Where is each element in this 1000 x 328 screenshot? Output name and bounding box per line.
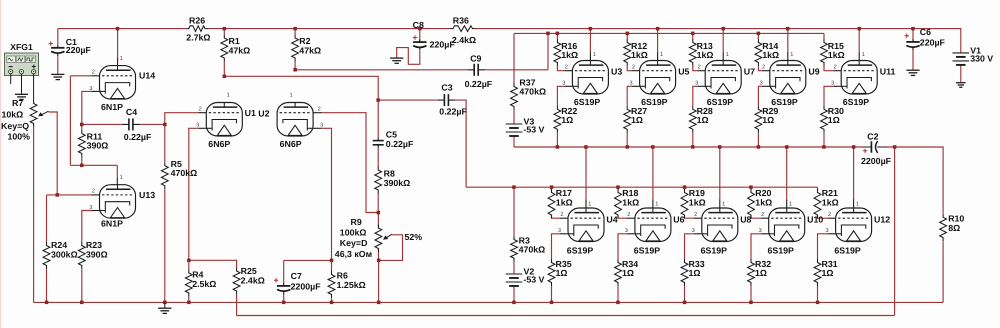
resistor R24 (43, 240, 78, 269)
capacitor C3 (437, 82, 467, 116)
svg-text:0.22µF: 0.22µF (465, 79, 493, 89)
svg-text:3: 3 (760, 81, 763, 87)
resistor R11 (78, 130, 108, 157)
svg-text:3: 3 (759, 228, 762, 234)
svg-text:1: 1 (120, 175, 123, 181)
svg-text:U14: U14 (139, 71, 155, 81)
resistor R15 (821, 39, 845, 66)
triode U2 (6N6P) (258, 93, 323, 150)
svg-text:C3: C3 (441, 82, 452, 92)
svg-text:R36: R36 (453, 15, 469, 25)
svg-text:8Ω: 8Ω (948, 223, 960, 233)
wire B+ rail right segment (R36 to V1) (476, 29, 961, 53)
svg-text:6N6P: 6N6P (280, 139, 302, 149)
triode U11 (6S19P) (831, 52, 895, 107)
wire cathode resistor bottom lead 3 (750, 286, 752, 302)
svg-text:C6: C6 (920, 27, 931, 37)
svg-text:6S19P: 6S19P (771, 97, 798, 107)
resistor R30 (821, 106, 844, 133)
triode U6 (6S19P) (625, 202, 685, 256)
wire R7 top lead from XFG1 (33, 82, 35, 100)
svg-text:2: 2 (828, 212, 831, 218)
wire R11 bottom lead (81, 157, 83, 165)
wire R1 bottom to U1 plate node (223, 62, 225, 77)
wire U14 plate drop (117, 29, 119, 58)
wire output bus right of C2 to R10 (886, 147, 943, 214)
svg-text:XFG1: XFG1 (10, 42, 33, 52)
wire grid resistor bottom to grid 3 (758, 66, 761, 71)
wire bottom grid bus (466, 186, 817, 188)
wire R11 top lead (81, 124, 83, 130)
wire plate drop U10 (786, 147, 788, 200)
svg-text:470kΩ: 470kΩ (171, 168, 198, 178)
svg-text:3: 3 (562, 81, 565, 87)
svg-text:1kΩ: 1kΩ (689, 198, 706, 208)
resistor R10 (940, 214, 965, 242)
wire U4 cathode to cathode resistor (560, 233, 568, 235)
svg-text:6S19P: 6S19P (641, 97, 668, 107)
wire plate drop U5 (657, 29, 659, 52)
ground on main bus (158, 308, 171, 313)
resistor R28 (689, 106, 712, 133)
wire C9 riser to top grid bus (547, 33, 549, 69)
svg-text:Key=D: Key=D (340, 238, 368, 248)
svg-text:U1: U1 (245, 108, 256, 118)
svg-text:U12: U12 (874, 215, 890, 225)
svg-text:2: 2 (318, 107, 321, 113)
resistor R5 (161, 159, 197, 189)
resistor R21 (814, 188, 839, 218)
svg-text:1: 1 (856, 202, 859, 208)
svg-text:3: 3 (825, 228, 828, 234)
capacitor C5 (373, 129, 414, 149)
wire R30 bottom lead (823, 133, 825, 147)
svg-text:2.4kΩ: 2.4kΩ (452, 35, 476, 45)
resistor R22 (554, 106, 577, 133)
svg-text:C5: C5 (386, 129, 397, 139)
junction dots on top grid bus (546, 32, 760, 35)
wire U9 cathode to R29 (762, 85, 770, 87)
triode U8 (6S19P) (692, 202, 752, 256)
svg-text:10kΩ: 10kΩ (2, 110, 24, 120)
svg-text:1: 1 (120, 56, 123, 62)
svg-text:U2: U2 (258, 108, 269, 118)
svg-text:1Ω: 1Ω (762, 115, 774, 125)
triode U5 (6S19P) (629, 52, 689, 107)
wire R9 wiper loop (379, 235, 403, 261)
junction dot U1 plate node (223, 75, 227, 79)
svg-text:1Ω: 1Ω (556, 268, 568, 278)
wire plate drop U11 (858, 29, 860, 52)
wire C1 bottom lead to ground (57, 56, 59, 74)
wire bottom grid resistor leads 3 (750, 187, 752, 190)
triode U13 (6N1P) (89, 175, 155, 228)
capacitor C1 (49, 37, 92, 56)
svg-text:1Ω: 1Ω (689, 268, 701, 278)
svg-text:-53 V: -53 V (523, 125, 544, 135)
potentiometer R9 (335, 217, 422, 259)
svg-text:R9: R9 (351, 217, 362, 227)
svg-text:0.22µF: 0.22µF (439, 107, 467, 117)
svg-text:U4: U4 (606, 215, 617, 225)
svg-text:100%: 100% (8, 132, 31, 142)
battery V1 (953, 45, 994, 65)
wire V2 to ground bus (513, 286, 515, 302)
wire ground symbol stem (164, 302, 166, 308)
svg-text:6S19P: 6S19P (834, 245, 861, 255)
resistor R27 (624, 106, 647, 133)
svg-text:2200µF: 2200µF (861, 156, 892, 166)
potentiometer R7 (1, 98, 49, 142)
svg-text:2: 2 (92, 189, 95, 195)
capacitor C4 (122, 107, 152, 142)
svg-text:46,3 кОм: 46,3 кОм (335, 249, 372, 259)
wire U13 plate node (70, 164, 117, 166)
resistor R16 (554, 39, 578, 66)
svg-text:U6: U6 (673, 215, 684, 225)
svg-text:1kΩ: 1kΩ (828, 50, 845, 60)
svg-text:470kΩ: 470kΩ (519, 245, 546, 255)
svg-text:390Ω: 390Ω (86, 249, 108, 259)
wire U2 grid to R9 node (321, 113, 378, 213)
svg-text:C2: C2 (867, 132, 878, 142)
svg-text:C8: C8 (413, 20, 424, 30)
triode U4 (6S19P) (558, 202, 618, 256)
wire U13 cathode to R23 (92, 210, 100, 212)
triode U3 (6S19P) (562, 52, 622, 107)
svg-text:470kΩ: 470kΩ (519, 87, 546, 97)
svg-text:47kΩ: 47kΩ (299, 45, 321, 55)
svg-text:3: 3 (692, 228, 695, 234)
wire C6 bottom lead to ground (912, 49, 914, 70)
svg-text:3: 3 (629, 81, 632, 87)
svg-text:6S19P: 6S19P (574, 97, 601, 107)
wire plate drop U12 (853, 147, 855, 200)
svg-text:2: 2 (565, 65, 568, 71)
svg-text:3: 3 (89, 205, 92, 211)
svg-text:2: 2 (761, 212, 764, 218)
svg-text:0.22µF: 0.22µF (386, 139, 414, 149)
wire grid resistor top lead 1 (626, 33, 628, 39)
wire plate drop U9 (787, 29, 789, 52)
svg-text:1: 1 (227, 93, 230, 99)
resistor R14 (755, 39, 779, 66)
capacitor C2 (861, 132, 892, 167)
resistor R6 (328, 270, 366, 298)
resistor R19 (681, 188, 706, 218)
wire U11 cathode to R30 (833, 85, 841, 87)
wire U6 cathode to cathode resistor (627, 233, 635, 235)
wire grid resistor top lead 2 (692, 33, 694, 39)
resistor R17 (548, 188, 573, 218)
svg-text:6S19P: 6S19P (701, 245, 728, 255)
wire R24 column (46, 195, 48, 242)
wire R9 node to ground bus (378, 260, 380, 302)
svg-text:U7: U7 (744, 67, 755, 77)
svg-text:52%: 52% (405, 232, 423, 242)
wire C5 chain from U1 plate node (377, 100, 379, 138)
wire R2 top lead (294, 29, 296, 35)
svg-text:3: 3 (196, 123, 199, 129)
wire grid resistor bottom to grid 0 (557, 66, 564, 71)
svg-text:6S19P: 6S19P (634, 245, 661, 255)
wire bottom grid resistor leads 0 (551, 187, 553, 190)
wire R1 top lead (223, 29, 225, 35)
resistor R4 (185, 269, 216, 296)
svg-text:1: 1 (655, 202, 658, 208)
resistor R3 (511, 235, 546, 261)
svg-text:1: 1 (726, 52, 729, 58)
function generator XFG1 (5, 42, 39, 94)
svg-text:6S19P: 6S19P (843, 97, 870, 107)
wire R7 wiper to U13 grid column (49, 112, 58, 195)
wire U14 grid to U13 plate node (69, 76, 71, 166)
wire U1 cathode to R4 column (198, 127, 206, 129)
junction dot U13 grid node (56, 193, 60, 197)
wire C4 node to C4 (82, 123, 122, 125)
svg-text:2: 2 (762, 65, 765, 71)
svg-text:1Ω: 1Ω (755, 268, 767, 278)
svg-text:U13: U13 (139, 190, 155, 200)
svg-text:U9: U9 (808, 67, 819, 77)
svg-text:2.5kΩ: 2.5kΩ (192, 279, 216, 289)
wire grid resistor bottom to grid 2 (693, 66, 697, 71)
junction dot R9 bottom node (377, 259, 381, 263)
wire R9 top lead (377, 213, 379, 229)
svg-text:3: 3 (695, 81, 698, 87)
svg-text:1kΩ: 1kΩ (697, 50, 714, 60)
left edge artifact line (0, 0, 1, 328)
svg-text:2: 2 (694, 212, 697, 218)
wire cathode resistor bottom lead 2 (684, 286, 686, 302)
junction dot U1 grid node (163, 123, 167, 127)
svg-text:100kΩ: 100kΩ (340, 228, 367, 238)
junction dot C4 node (80, 123, 84, 127)
svg-text:-53 V: -53 V (523, 275, 544, 285)
junction dots on ground bus (45, 301, 820, 305)
wire U3 cathode to R22 (564, 85, 572, 87)
svg-text:1.25kΩ: 1.25kΩ (337, 280, 366, 290)
battery V3 (506, 117, 545, 137)
ground below V1 (956, 83, 966, 88)
svg-text:2: 2 (199, 107, 202, 113)
svg-text:1Ω: 1Ω (828, 115, 840, 125)
triode U9 (6S19P) (760, 52, 820, 107)
wire R27 bottom lead (626, 133, 628, 147)
svg-text:1: 1 (862, 52, 865, 58)
wire U2 cathode to R6 column (313, 127, 321, 129)
svg-text:0.22µF: 0.22µF (124, 132, 152, 142)
wire U1 cathode node to R25 (189, 260, 237, 267)
wire V3 to output bus (513, 136, 515, 147)
wire C9 to riser (485, 69, 548, 71)
wire C4 to U1 grid column (140, 123, 165, 125)
wire R28 bottom lead (692, 133, 694, 147)
svg-text:2200µF: 2200µF (291, 281, 322, 291)
wire grid resistor top lead 4 (823, 33, 825, 39)
ground below XFG1 (15, 94, 28, 99)
capacitor C9 (465, 54, 493, 90)
triode U12 (6S19P) (825, 202, 890, 256)
wire B+ rail left segment (C1 to R26) (58, 28, 185, 30)
wire C3 to bottom grid bus riser (456, 100, 467, 187)
wire bottom grid resistor leads 2 (684, 187, 686, 190)
wire cathode node to C7 (284, 259, 332, 261)
ground below C1 (51, 74, 64, 79)
wire grid resistor bottom to grid 4 (824, 66, 833, 71)
wire C8 top lead (419, 29, 421, 42)
wire R4 leads (188, 260, 190, 269)
wire R22 bottom lead (556, 133, 558, 147)
wire feedback run (237, 315, 895, 317)
svg-text:2: 2 (627, 212, 630, 218)
wire plate drop U6 (652, 147, 654, 200)
wire U13 plate lead (116, 165, 118, 177)
wire U2 plate node to C9 (295, 69, 467, 71)
resistor R37 (511, 77, 546, 110)
svg-text:2: 2 (92, 70, 95, 76)
svg-text:1: 1 (722, 202, 725, 208)
wire ground bus (34, 301, 944, 303)
svg-text:U11: U11 (880, 67, 896, 77)
resistor R2 (292, 35, 321, 62)
junction dots on output bus (556, 145, 897, 149)
junction dot R9 top node (377, 211, 381, 215)
wire C7 top lead (283, 260, 285, 283)
svg-text:1: 1 (588, 202, 591, 208)
wire U1 plate node across (224, 76, 378, 100)
svg-text:1: 1 (660, 52, 663, 58)
capacitor C6 (905, 27, 946, 50)
svg-text:C4: C4 (126, 107, 137, 117)
svg-text:Key=Q: Key=Q (1, 121, 29, 131)
wire V3/R37 column top (513, 33, 515, 83)
resistor R35 (548, 259, 572, 286)
wire U12 cathode to cathode resistor (828, 233, 836, 235)
svg-text:1: 1 (289, 93, 292, 99)
svg-text:330 V: 330 V (970, 54, 993, 64)
svg-text:R7: R7 (12, 98, 23, 108)
svg-text:220µF: 220µF (920, 38, 946, 48)
wire U8 cathode to cathode resistor (694, 233, 702, 235)
svg-text:6N1P: 6N1P (101, 219, 123, 229)
resistor R29 (755, 106, 778, 133)
svg-text:2.7kΩ: 2.7kΩ (186, 33, 210, 43)
svg-text:300kΩ: 300kΩ (51, 249, 78, 259)
svg-text:U10: U10 (807, 215, 823, 225)
capacitor C7 (274, 271, 321, 294)
svg-text:U3: U3 (611, 67, 622, 77)
junction dots on bottom grid bus (512, 185, 753, 189)
triode U14 (6N1P) (89, 56, 155, 112)
wire bottom grid resistor leads 1 (617, 187, 619, 190)
svg-text:6N1P: 6N1P (101, 102, 123, 112)
svg-text:47kΩ: 47kΩ (229, 45, 251, 55)
resistor R20 (748, 188, 773, 218)
wire R3 top lead (513, 187, 515, 236)
svg-text:1kΩ: 1kΩ (622, 198, 639, 208)
resistor R8 (375, 167, 410, 194)
wire U1 grid (198, 112, 206, 114)
wire R8 to R9 node (377, 194, 379, 213)
svg-text:1: 1 (789, 202, 792, 208)
svg-text:3: 3 (831, 81, 834, 87)
wire grid resistor top lead 3 (757, 33, 759, 39)
resistor R23 (78, 240, 107, 269)
svg-text:C7: C7 (291, 271, 302, 281)
svg-text:3: 3 (89, 86, 92, 92)
resistor R13 (689, 39, 713, 66)
wire plate drop U4 (585, 147, 587, 200)
wire R5 bottom to ground bus (164, 190, 166, 303)
junction dot U2 plate node (293, 68, 297, 72)
resistor R31 (814, 259, 838, 286)
svg-text:2: 2 (834, 65, 837, 71)
wire C8 bottom to ground (stepped) (397, 48, 420, 65)
wire cathode resistor bottom lead 1 (617, 286, 619, 302)
wire plate drop U7 (722, 29, 724, 52)
wire U5 cathode to R27 (632, 85, 640, 87)
svg-text:1Ω: 1Ω (822, 268, 834, 278)
junction dot C3 branch (376, 98, 380, 102)
resistor R1 (221, 35, 250, 62)
resistor R36 (450, 15, 477, 44)
wire B+ rail middle segment (R26 to R36) (209, 28, 450, 30)
svg-text:220µF: 220µF (66, 45, 92, 55)
svg-text:3: 3 (558, 228, 561, 234)
wire bottom grid resistor leads 4 (817, 187, 819, 190)
svg-text:6S19P: 6S19P (768, 245, 795, 255)
svg-text:C9: C9 (470, 54, 481, 64)
wire R25 bottom crossing ground bus to feedback (236, 295, 238, 316)
svg-text:3: 3 (625, 228, 628, 234)
ground below C8 (390, 58, 403, 63)
svg-text:1kΩ: 1kΩ (762, 50, 779, 60)
svg-text:2: 2 (698, 65, 701, 71)
wire U14 cathode down to C4 node (92, 90, 100, 92)
svg-text:1: 1 (790, 52, 793, 58)
resistor R34 (615, 259, 639, 286)
svg-text:U5: U5 (678, 67, 689, 77)
wire R23 bottom lead (81, 269, 83, 302)
resistor R26 (185, 15, 210, 42)
wire cathode resistor bottom lead 4 (817, 286, 819, 302)
wire C6 top lead (912, 29, 914, 42)
wire node to C3 (378, 99, 437, 101)
svg-text:1Ω: 1Ω (561, 115, 573, 125)
resistor R25 (233, 266, 265, 295)
wire R6 leads (331, 260, 333, 271)
wire C5 to R8 (377, 147, 379, 167)
resistor R12 (624, 39, 648, 66)
svg-text:R26: R26 (189, 15, 205, 25)
battery V2 (506, 267, 545, 287)
resistor R33 (681, 259, 705, 286)
wire cathode resistor bottom lead 0 (551, 286, 553, 302)
wire R7 bottom lead down to ground bus (33, 127, 35, 302)
wire V1 bottom lead to ground (960, 65, 962, 82)
wire grid resistor bottom to grid 1 (627, 66, 631, 71)
svg-text:6N6P: 6N6P (208, 139, 230, 149)
svg-text:1kΩ: 1kΩ (631, 50, 648, 60)
svg-text:1kΩ: 1kΩ (556, 198, 573, 208)
wire plate drop U3 (589, 29, 591, 52)
wire plate drop U8 (719, 147, 721, 200)
wire U10 cathode to cathode resistor (761, 233, 769, 235)
svg-text:1: 1 (593, 52, 596, 58)
svg-text:2.4kΩ: 2.4kΩ (241, 275, 265, 285)
wire R29 bottom lead (757, 133, 759, 147)
